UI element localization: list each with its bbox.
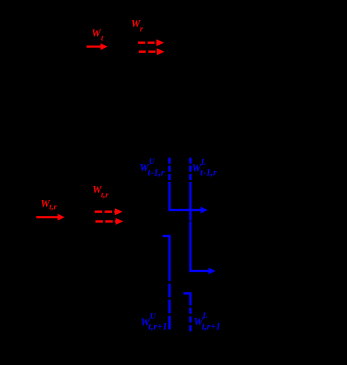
label W^L_t,r+1 — [194, 311, 221, 333]
label W^U_t-1,r — [140, 157, 165, 178]
wire solid right with arrow right — [190, 182, 215, 274]
wire hook right — [183, 293, 190, 332]
label W_t,r right — [92, 185, 109, 199]
label W^U_t,r+1 — [141, 311, 168, 332]
svg-text:U: U — [150, 311, 157, 320]
svg-text:t-1,r: t-1,r — [148, 168, 165, 179]
svg-text:r: r — [140, 25, 144, 34]
wire dashed vertical right top — [189, 158, 191, 183]
svg-text:L: L — [200, 157, 206, 166]
svg-text:t,r: t,r — [101, 191, 109, 200]
wire solid left with arrow right — [170, 182, 208, 213]
arrow dashed red top 1 — [138, 39, 164, 46]
label W_r — [131, 19, 144, 34]
label W_t,r left — [41, 199, 58, 212]
arrow dashed red middle 2 — [95, 218, 123, 225]
svg-text:t-1,r: t-1,r — [200, 169, 217, 179]
arrow solid red top — [87, 43, 108, 50]
svg-text:t,r+1: t,r+1 — [148, 322, 167, 333]
svg-text:L: L — [202, 311, 208, 320]
svg-text:t: t — [101, 33, 104, 42]
label W_t — [92, 29, 105, 43]
label W^L_t-1,r — [192, 157, 217, 178]
svg-text:t,r: t,r — [49, 203, 57, 212]
wire dashed vertical left top — [168, 158, 170, 183]
svg-text:W: W — [92, 29, 102, 40]
svg-text:t,r+1: t,r+1 — [202, 323, 220, 333]
node pinch on right vertical wire — [189, 220, 191, 223]
arrow dashed red middle 1 — [95, 208, 123, 215]
svg-text:U: U — [149, 157, 156, 166]
arrow dashed red top 2 — [139, 48, 165, 55]
arrow solid red middle — [36, 214, 64, 221]
wire hook left — [163, 236, 170, 331]
